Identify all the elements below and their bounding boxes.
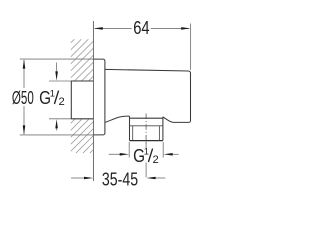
svg-text:35-45: 35-45 [102,170,138,190]
svg-text:Ø50: Ø50 [12,88,34,108]
svg-text:1: 1 [50,88,55,98]
svg-text:2: 2 [59,96,65,108]
svg-text:64: 64 [133,18,149,38]
